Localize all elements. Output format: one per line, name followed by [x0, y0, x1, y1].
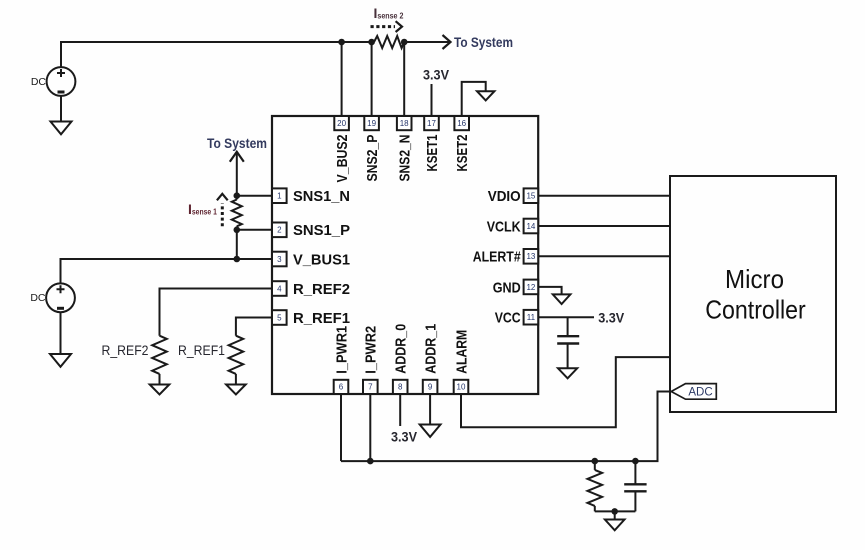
svg-text:R_REF2: R_REF2 — [102, 342, 149, 358]
resistor Isense2 — [374, 36, 404, 48]
svg-text:VCC: VCC — [495, 310, 521, 327]
pin 10 square — [454, 380, 469, 394]
ground ADDR_1 — [420, 425, 441, 437]
ground R_REF2 — [150, 385, 170, 395]
resistor R (filter) — [588, 470, 603, 506]
svg-text:R_REF1: R_REF1 — [293, 310, 350, 327]
wire resistor stubs Isense1 — [236, 196, 238, 230]
svg-text:ALARM: ALARM — [453, 330, 470, 374]
pin 8 square — [393, 380, 408, 394]
svg-text:9: 9 — [428, 383, 433, 392]
wire GND pin12 — [538, 287, 561, 295]
wire DC2 to ground — [60, 312, 62, 354]
wire pin7 drop — [369, 394, 371, 461]
pin 7 square — [363, 380, 378, 394]
pin 11 square — [524, 310, 539, 325]
wire pin19 drop — [371, 42, 373, 116]
pin 17 square — [424, 116, 439, 130]
pin 18 square — [397, 116, 412, 130]
capacitor C1 (VCC) — [557, 336, 579, 343]
junction dot pin20 rail — [338, 39, 345, 46]
junction dot filter ground — [611, 508, 618, 515]
pin 5 square — [272, 310, 287, 325]
resistor R_REF2 — [152, 336, 167, 374]
junction dot node pin2 — [234, 227, 241, 234]
wire pin9 ADDR_1 to ground — [429, 394, 431, 425]
capacitor C (filter) — [624, 484, 646, 491]
svg-text:16: 16 — [457, 119, 466, 128]
svg-text:3.3V: 3.3V — [391, 430, 417, 445]
DC source V1 — [31, 67, 76, 96]
svg-text:To System: To System — [454, 35, 513, 50]
svg-text:6: 6 — [339, 383, 344, 392]
svg-text:12: 12 — [526, 283, 535, 292]
svg-text:GND: GND — [493, 279, 521, 296]
wire pin18 drop — [403, 42, 405, 116]
pin 15 square — [524, 188, 539, 203]
svg-text:VDIO: VDIO — [488, 188, 521, 205]
svg-text:3.3V: 3.3V — [598, 310, 624, 325]
svg-text:To System: To System — [207, 136, 267, 151]
arrowhead To System (top right) — [443, 35, 451, 49]
svg-text:3.3V: 3.3V — [423, 67, 449, 82]
svg-text:SNS2_P: SNS2_P — [364, 135, 381, 182]
wire pin8 ADDR_0 to 3.3V — [399, 394, 401, 426]
arrowhead up To System — [230, 152, 244, 162]
wire filter bottom join — [595, 510, 636, 512]
wire filter R bottom stub — [594, 506, 596, 512]
wire: DC1 to top rail — [61, 42, 374, 67]
ground KSET2 — [477, 91, 494, 100]
resistor Isense1 — [232, 200, 242, 227]
wire filter ground stub — [614, 511, 616, 519]
svg-text:2: 2 — [277, 226, 282, 235]
pin 16 square — [454, 116, 469, 130]
wire DC2 to VBUS1 pin3 — [61, 259, 273, 283]
junction dot filter R bus — [592, 458, 599, 465]
wire pin6 drop — [340, 394, 342, 461]
svg-text:R_REF2: R_REF2 — [293, 281, 350, 298]
wire pin10 ALARM to MC — [461, 357, 670, 427]
dashed arrow Isense2 — [371, 25, 396, 28]
wire node to pin1 — [237, 195, 272, 197]
wire VCC pin11 to 3.3V — [538, 316, 594, 318]
dashed arrow Isense1 — [221, 203, 224, 226]
svg-text:I_PWR2: I_PWR2 — [363, 326, 380, 374]
wire pin16 KSET2 to ground — [462, 82, 486, 116]
wire filter R top stub — [594, 461, 596, 470]
junction dot pin18 rail — [401, 39, 408, 46]
pin 14 square — [524, 219, 539, 234]
pin 6 square — [334, 380, 349, 394]
pin 3 square — [272, 252, 287, 267]
ground filter — [605, 520, 625, 531]
svg-text:11: 11 — [527, 313, 536, 322]
svg-text:5: 5 — [277, 313, 282, 322]
junction dot node pin1 — [234, 192, 241, 199]
svg-text:VCLK: VCLK — [487, 218, 521, 235]
wire filter C top stub — [634, 461, 636, 484]
svg-text:1: 1 — [277, 192, 282, 201]
IC body U1 — [272, 116, 538, 394]
svg-text:KSET1: KSET1 — [424, 135, 441, 172]
wire ALERT# to MC — [538, 255, 670, 257]
svg-text:V_BUS2: V_BUS2 — [334, 135, 351, 183]
resistor R_REF1 — [229, 336, 244, 374]
wire cap VCC top — [567, 317, 569, 336]
ground below DC2 — [50, 354, 71, 367]
svg-text:V_BUS1: V_BUS1 — [293, 251, 350, 268]
wire: DC1 to ground — [60, 96, 62, 122]
svg-text:SNS1_P: SNS1_P — [293, 222, 350, 239]
pin 1 square — [272, 188, 287, 203]
svg-text:13: 13 — [526, 252, 535, 261]
wire R_REF2 to ground — [159, 374, 161, 385]
svg-text:DC: DC — [30, 292, 46, 304]
svg-text:SNS1_N: SNS1_N — [293, 188, 350, 205]
ground GND pin12 — [553, 294, 571, 304]
wire To System down to pin1 node — [236, 152, 238, 196]
svg-text:14: 14 — [526, 222, 535, 231]
svg-text:I_PWR1: I_PWR1 — [333, 326, 350, 374]
svg-text:DC: DC — [31, 76, 47, 88]
svg-text:17: 17 — [427, 119, 436, 128]
svg-text:ADDR_0: ADDR_0 — [393, 324, 410, 374]
svg-text:ADC: ADC — [688, 387, 712, 399]
DC source V2 — [30, 283, 75, 312]
svg-text:10: 10 — [457, 383, 466, 392]
svg-text:R_REF1: R_REF1 — [178, 342, 225, 358]
wire cap VCC bottom — [567, 344, 569, 369]
wire node pin2 down to VBUS1 wire — [236, 230, 238, 259]
wire: Isense2 to arrow — [404, 41, 449, 43]
wire pin17 from 3.3V — [431, 84, 433, 116]
svg-text:SNS2_N: SNS2_N — [397, 135, 414, 182]
svg-text:Controller: Controller — [705, 295, 806, 325]
wire VCLK to MC — [538, 225, 670, 227]
wire VDIO to MC — [538, 195, 670, 197]
wire pin20 drop — [341, 42, 343, 116]
pin 9 square — [423, 380, 438, 394]
svg-text:ADDR_1: ADDR_1 — [422, 324, 439, 374]
wire pin4 to R_REF2 — [160, 289, 273, 336]
junction dot pin7 bus — [367, 458, 374, 465]
pin 19 square — [364, 116, 379, 130]
Micro Controller box — [670, 176, 836, 412]
svg-text:ALERT#: ALERT# — [473, 249, 522, 266]
junction dot pin19 rail — [368, 39, 375, 46]
svg-text:18: 18 — [400, 119, 409, 128]
wire pin5 to R_REF1 — [236, 318, 272, 336]
svg-text:7: 7 — [368, 383, 373, 392]
svg-text:8: 8 — [398, 383, 403, 392]
ground below DC1 — [51, 122, 72, 135]
svg-text:KSET2: KSET2 — [454, 135, 471, 172]
pin 4 square — [272, 281, 287, 296]
ground R_REF1 — [226, 385, 246, 395]
wire R_REF1 to ground — [235, 374, 237, 385]
svg-text:4: 4 — [277, 284, 282, 293]
svg-text:Micro: Micro — [725, 264, 784, 294]
wire bottom bus to ADC — [341, 392, 671, 462]
svg-text:15: 15 — [526, 192, 535, 201]
pin 12 square — [524, 280, 539, 295]
svg-text:3: 3 — [277, 255, 282, 264]
svg-text:19: 19 — [367, 119, 376, 128]
svg-text:20: 20 — [337, 119, 346, 128]
junction dot filter C bus — [632, 458, 639, 465]
ground cap VCC — [558, 368, 577, 378]
wire filter C bottom stub — [634, 491, 636, 511]
junction dot node pin3 — [234, 256, 241, 263]
ADC flag — [671, 384, 716, 400]
pin 13 square — [524, 249, 539, 264]
pin 2 square — [272, 223, 287, 238]
wire node to pin2 — [237, 229, 272, 231]
pin 20 square — [334, 116, 349, 130]
